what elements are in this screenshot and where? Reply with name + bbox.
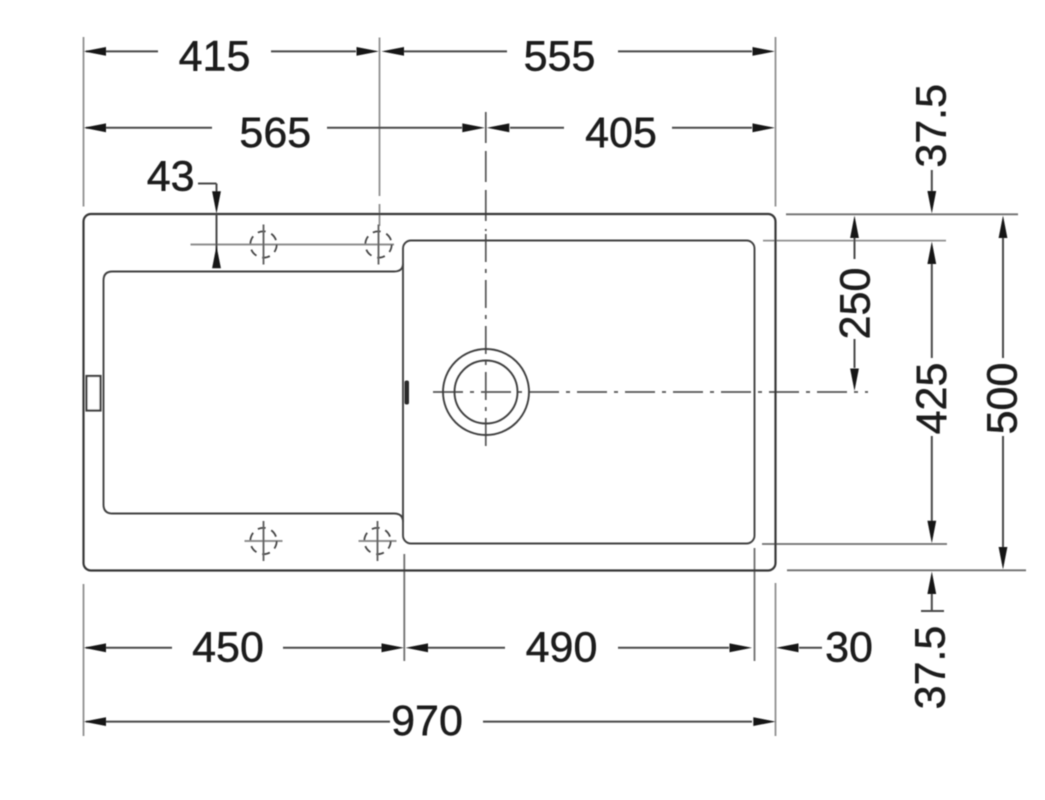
svg-text:425: 425 [908,363,956,435]
svg-text:250: 250 [832,268,880,340]
svg-text:565: 565 [239,109,311,157]
svg-text:450: 450 [192,624,264,672]
svg-text:37.5: 37.5 [907,626,955,710]
svg-text:37.5: 37.5 [908,84,956,168]
svg-text:43: 43 [147,153,195,201]
svg-text:30: 30 [825,624,873,672]
svg-text:405: 405 [585,109,657,157]
svg-text:490: 490 [526,624,598,672]
svg-text:970: 970 [391,697,463,745]
svg-text:500: 500 [979,363,1027,435]
svg-text:415: 415 [179,33,251,81]
svg-text:555: 555 [524,33,596,81]
